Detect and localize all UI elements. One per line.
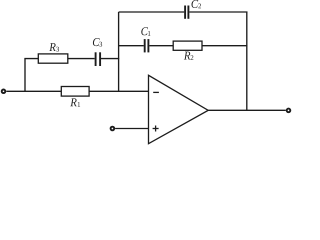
- op-amp plus pin mark: [153, 126, 159, 132]
- label R3: [49, 43, 59, 51]
- label C2: [192, 0, 202, 8]
- capacitor C3: [96, 52, 101, 66]
- wire node A up to R3 row: [25, 59, 38, 92]
- input terminal: [2, 90, 6, 94]
- wire R3 to C3: [68, 58, 95, 60]
- non-inverting input terminal: [111, 127, 115, 131]
- wire top rail left: [119, 11, 185, 13]
- resistor R3: [38, 54, 68, 63]
- wire R1 to op-amp inverting input: [89, 90, 148, 92]
- wire C3 to node B: [101, 58, 119, 60]
- resistor R2: [173, 41, 202, 50]
- capacitor C1: [145, 39, 149, 52]
- wire input to node A: [6, 90, 25, 92]
- node B vertical wire: [118, 12, 120, 91]
- wire node B to C1: [119, 45, 144, 47]
- wire top rail right: [189, 11, 247, 13]
- label R2: [184, 52, 194, 60]
- capacitor C2: [185, 6, 188, 19]
- label C3: [93, 38, 102, 47]
- wire node A to R1: [25, 90, 61, 92]
- wire C1 to R2: [149, 45, 173, 47]
- right rail vertical wire: [246, 12, 248, 110]
- op-amp minus pin mark: [153, 91, 159, 93]
- wire plus terminal to op-amp: [115, 128, 148, 130]
- output terminal: [287, 109, 291, 113]
- op-amp U1: [149, 75, 209, 143]
- wire op-amp output: [208, 109, 286, 111]
- label C1: [141, 27, 150, 35]
- resistor R1: [61, 87, 89, 97]
- label R1: [70, 98, 80, 106]
- wire R2 to right rail: [202, 45, 248, 47]
